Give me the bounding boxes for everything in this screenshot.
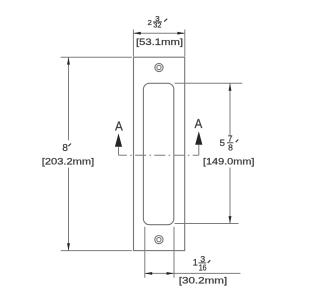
- svg-text:[30.2mm]: [30.2mm]: [179, 275, 228, 286]
- svg-text:8: 8: [62, 143, 68, 154]
- section line A-A: [119, 154, 199, 156]
- dimension recess width alternate text [30.2mm]: [179, 275, 228, 286]
- dimension width 2 3/32 extension lines: [133, 30, 184, 57]
- svg-text:A: A: [195, 116, 203, 131]
- screw hole bottom: [155, 236, 163, 244]
- section marker A left: [115, 119, 123, 156]
- dimension recess height alternate text [149.0mm]: [203, 156, 255, 167]
- recess pocket: [143, 83, 173, 224]
- plate outline: [134, 57, 185, 250]
- svg-text:A: A: [115, 119, 123, 134]
- dimension height 8 extension lines: [61, 57, 132, 250]
- dimension recess width 1 3/16 line with text shelf: [145, 272, 241, 275]
- dimension recess height 5 7/8 line: [229, 83, 232, 223]
- svg-text:16: 16: [199, 263, 207, 273]
- svg-text:32: 32: [153, 22, 161, 30]
- dimension height primary text 8": [62, 143, 71, 154]
- svg-text:[53.1mm]: [53.1mm]: [136, 37, 183, 48]
- section marker A right: [195, 116, 203, 155]
- dimension width primary text 2 3/32": [148, 15, 168, 30]
- dimension width 2 3/32 line: [133, 32, 184, 35]
- svg-text:8: 8: [228, 142, 233, 152]
- screw hole top: [155, 63, 163, 71]
- svg-text:5: 5: [220, 138, 225, 149]
- svg-text:[149.0mm]: [149.0mm]: [203, 156, 255, 167]
- dimension recess width primary text 1 3/16": [193, 254, 211, 273]
- svg-text:[203.2mm]: [203.2mm]: [42, 156, 95, 167]
- dimension recess height 5 7/8 extension lines: [175, 83, 243, 223]
- svg-text:2: 2: [148, 18, 152, 27]
- dimension height alternate text [203.2mm]: [42, 156, 95, 167]
- dimension recess width 1 3/16 extension lines: [145, 227, 174, 278]
- dimension height 8 line: [67, 57, 70, 250]
- dimension width alternate text [53.1mm]: [136, 37, 183, 48]
- svg-text:1: 1: [193, 258, 198, 268]
- dimension recess height primary text 5 7/8": [220, 134, 239, 153]
